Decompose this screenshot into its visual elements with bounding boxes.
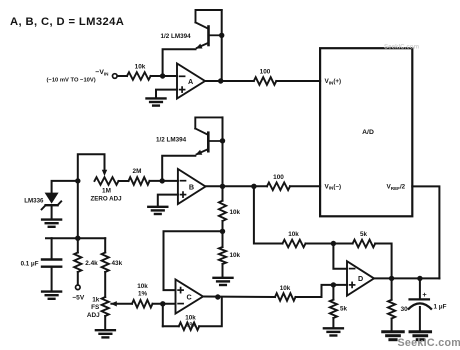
node junction at A minus: [160, 73, 165, 78]
ground at op-amp A plus input: [147, 98, 166, 105]
resistor 10k 1% input of C: [132, 300, 153, 308]
wire divider to ground: [222, 264, 224, 277]
svg-text:−VIN: −VIN: [95, 69, 109, 77]
svg-text:LM336: LM336: [24, 197, 44, 204]
label 2.4k: [85, 260, 98, 267]
svg-text:FS: FS: [91, 304, 100, 311]
svg-text:ZERO ADJ: ZERO ADJ: [90, 195, 122, 202]
pin label VREF/2: [387, 184, 406, 191]
label 1% (b): [186, 321, 196, 328]
label 1% (a): [138, 291, 148, 298]
wire divider junction to op-amp C plus: [164, 231, 223, 290]
svg-text:1%: 1%: [186, 321, 196, 328]
label 5k grounded: [340, 305, 348, 312]
svg-text:+: +: [422, 290, 427, 299]
transistor Q2 1/2 LM394: [195, 117, 222, 154]
bottom-left supply rail: [46, 237, 105, 239]
svg-text:2M: 2M: [133, 168, 142, 175]
node Q2 base junction: [220, 138, 225, 143]
wire 30 to ground: [391, 319, 393, 331]
wire D output to VREF wire: [374, 277, 439, 279]
wire 5k feedback to D output: [375, 244, 391, 279]
svg-text:A/D: A/D: [362, 129, 374, 136]
zener diode LM336: [42, 193, 62, 210]
wire junction down to 5k: [332, 285, 334, 300]
svg-text:10k: 10k: [137, 283, 148, 290]
ground below 5k: [324, 328, 343, 335]
wire 10k to 5k: [306, 243, 353, 245]
label FS: [91, 304, 100, 311]
wire 1M to 2M: [119, 180, 129, 182]
wire N1 down to bottom rail: [77, 181, 79, 238]
label 1k: [92, 297, 100, 304]
node C output junction: [215, 294, 220, 299]
watermark SeekIC.com: [398, 337, 460, 349]
op-amp U1-B: [178, 169, 206, 204]
svg-text:43k: 43k: [112, 260, 123, 267]
label A/D: [362, 129, 374, 136]
svg-text:100: 100: [260, 68, 271, 75]
ground below 1k pot: [96, 330, 115, 337]
svg-text:1 μF: 1 μF: [434, 303, 447, 310]
potentiometer 1M: [95, 177, 119, 185]
label 1/2 LM394 for Q2: [156, 136, 187, 143]
label 0.1 uF: [21, 260, 39, 267]
svg-text:D: D: [358, 274, 363, 283]
wire 2M to op-amp B minus: [150, 180, 178, 182]
svg-text:SeekIC.com: SeekIC.com: [398, 337, 460, 349]
svg-text:1k: 1k: [92, 297, 100, 304]
wire Q1 collector-base rail down to output: [221, 10, 223, 81]
wire D output down to 30: [391, 278, 393, 299]
node D output junction: [389, 276, 394, 281]
wire C feedback down: [162, 304, 164, 327]
svg-text:1/2 LM394: 1/2 LM394: [156, 136, 187, 143]
wire B output down through divider: [222, 186, 224, 200]
wire rail to 43k: [104, 238, 106, 252]
faint watermark top: [384, 43, 420, 50]
node junction at C minus: [160, 301, 165, 306]
node divider junction: [220, 229, 225, 234]
node junction at 1uF: [417, 276, 422, 281]
label ADJ: [87, 312, 100, 319]
svg-text:−5V: −5V: [72, 295, 85, 302]
resistor 2M: [129, 177, 150, 185]
svg-text:A, B, C, D = LM324A: A, B, C, D = LM324A: [10, 16, 124, 28]
svg-text:C: C: [186, 292, 191, 301]
ground below 30: [383, 332, 404, 340]
wire VIN(-) junction down to rail: [254, 186, 283, 243]
ground at op-amp B plus input: [148, 207, 167, 214]
wire 0.1uF to ground: [51, 267, 53, 291]
wire Q2 collector-base rail down to output: [222, 117, 224, 186]
wire 100 to VIN(+): [276, 80, 320, 82]
title text A,B,C,D = LM324A: [10, 16, 124, 28]
label 10k to D: [280, 285, 291, 292]
node reference junction N1: [75, 178, 80, 183]
svg-text:VIN(−): VIN(−): [325, 183, 342, 190]
wire 100 to VIN(-): [290, 185, 320, 187]
label 10k summing: [288, 231, 299, 238]
op-amp U1-C: [176, 280, 204, 314]
label 10k divider upper: [230, 209, 241, 216]
pin label VIN(-): [325, 183, 342, 190]
wire 43k to 1k pot: [104, 272, 106, 297]
label 30: [401, 306, 409, 313]
svg-text:SeekIC.com: SeekIC.com: [384, 43, 420, 50]
label 100 top: [260, 68, 271, 75]
wire 10k 1% to op-amp C minus: [153, 303, 176, 305]
ground below 0.1uF: [42, 292, 61, 299]
label 1 uF: [434, 303, 447, 310]
wire LM336 to ground: [51, 205, 53, 219]
wiper arrow of 1k pot: [111, 301, 117, 306]
label 43k: [112, 260, 123, 267]
wire B output to R 100: [206, 185, 268, 187]
wire rail to 0.1uF: [51, 238, 53, 258]
label 10k divider lower: [230, 252, 241, 259]
wire wiper loop of 1M pot: [78, 154, 105, 181]
svg-text:100: 100: [273, 174, 284, 181]
wire feedback up to C output: [199, 297, 222, 326]
node Q1 base junction: [219, 33, 224, 38]
label 100 middle: [273, 174, 284, 181]
ground below divider: [214, 278, 233, 285]
wire 10k to op-amp A minus: [151, 75, 177, 77]
label 10k (1% a): [137, 283, 148, 290]
wire N1 to LM336: [52, 181, 78, 193]
svg-text:30: 30: [401, 306, 409, 313]
resistor 10k summing: [283, 240, 306, 248]
resistor 10k divider lower: [219, 247, 226, 264]
resistor 10k 1% feedback of C: [179, 323, 199, 331]
wire summing junction to D minus: [333, 244, 347, 269]
svg-text:VREF/2: VREF/2: [387, 184, 406, 191]
wire 5k to ground: [332, 318, 334, 328]
svg-text:A: A: [188, 77, 193, 86]
svg-text:B: B: [189, 182, 194, 191]
svg-text:10k: 10k: [230, 252, 241, 259]
svg-text:10k: 10k: [135, 63, 146, 70]
svg-text:VIN(+): VIN(+): [325, 78, 342, 85]
op-amp U1-D: [347, 261, 374, 296]
resistor 5k feedback: [353, 240, 376, 248]
wire input to R 10k: [117, 75, 127, 77]
wire 1uF to ground: [419, 307, 421, 331]
svg-text:1M: 1M: [102, 188, 111, 195]
wire VREF/2 to D output: [412, 186, 439, 278]
ground below 1uF: [410, 332, 431, 340]
svg-text:10k: 10k: [288, 231, 299, 238]
pin label VIN(+): [325, 78, 342, 85]
wire 1k pot to ground: [104, 316, 106, 330]
node B output junction: [220, 184, 225, 189]
node junction at B minus: [160, 178, 165, 183]
wire B plus input to ground: [158, 195, 178, 207]
label 2M: [133, 168, 142, 175]
label input range (-10 mV TO -10V): [47, 77, 96, 83]
label -5V: [72, 295, 85, 302]
svg-text:5k: 5k: [340, 305, 348, 312]
svg-text:1/2 LM394: 1/2 LM394: [161, 33, 192, 40]
wire divider middle: [222, 221, 224, 247]
resistor 10k input: [127, 72, 151, 80]
wire junction up to Q2 emitter: [162, 156, 195, 181]
wire A plus input to ground: [156, 90, 177, 98]
label 1/2 LM394 for Q1: [161, 33, 192, 40]
resistor 10k divider upper: [219, 201, 226, 221]
svg-text:5k: 5k: [360, 231, 368, 238]
svg-text:ADJ: ADJ: [87, 312, 100, 319]
resistor 30: [388, 300, 395, 319]
svg-text:10k: 10k: [280, 285, 291, 292]
node summing junction: [331, 241, 336, 246]
resistor 43k: [102, 253, 109, 273]
label ZERO ADJ: [90, 195, 122, 202]
wire 10k to D plus input: [296, 285, 348, 297]
svg-text:0.1 μF: 0.1 μF: [21, 260, 39, 267]
node junction to divider: [251, 184, 256, 189]
terminal -5V: [76, 285, 81, 290]
label 1M: [102, 188, 111, 195]
wire junction up to Q1 emitter: [163, 49, 196, 76]
wire C feedback to 10k 1%: [163, 325, 179, 327]
resistor 100 top: [254, 77, 276, 85]
wire junction down to 1uF: [419, 278, 421, 298]
label 5k feedback: [360, 231, 368, 238]
wire pot wiper to 10k 1%: [111, 303, 132, 305]
node rail junction: [75, 236, 80, 241]
resistor 10k to op-amp D: [275, 293, 296, 301]
wiper arrow of 1M pot: [102, 170, 107, 176]
label -VIN: [95, 69, 109, 77]
A/D converter block: [320, 48, 412, 216]
input terminal -VIN: [113, 74, 118, 79]
ground below LM336: [42, 220, 61, 227]
label 10k: [135, 63, 146, 70]
transistor Q1 1/2 LM394: [196, 10, 222, 49]
node junction at D plus: [331, 282, 336, 287]
wire A output to R 100: [205, 80, 254, 82]
svg-text:2.4k: 2.4k: [85, 260, 98, 267]
op-amp U1-A: [177, 64, 205, 99]
svg-text:(−10 mV TO −10V): (−10 mV TO −10V): [47, 77, 96, 83]
label LM336: [24, 197, 44, 204]
wire rail to 2.4k: [77, 238, 79, 252]
potentiometer 1k FS ADJ: [102, 297, 109, 316]
svg-text:1%: 1%: [138, 291, 148, 298]
wire 2.4k to -5V terminal: [77, 272, 79, 285]
wire C output: [203, 296, 275, 299]
capacitor 1uF polarized: [408, 299, 432, 309]
label 10k (1% b): [185, 315, 196, 322]
svg-text:10k: 10k: [230, 209, 241, 216]
capacitor 0.1uF: [42, 260, 61, 267]
resistor 5k grounded: [330, 300, 337, 318]
node A output junction: [218, 78, 223, 83]
label plus of 1uF: [422, 290, 427, 299]
resistor 2.4k: [74, 253, 81, 273]
resistor 100 middle: [267, 183, 290, 191]
